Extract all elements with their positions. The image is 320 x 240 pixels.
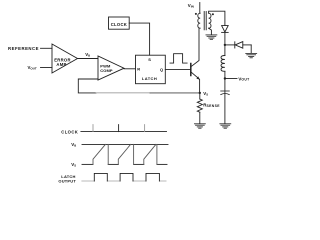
transformer core	[203, 12, 205, 30]
ground under C1	[220, 124, 231, 128]
transistor Q1 emitter with arrow	[191, 72, 200, 93]
svg-text:VIN: VIN	[188, 3, 195, 8]
ground under secondary	[206, 35, 217, 39]
svg-text:Va: Va	[85, 52, 90, 57]
node diode junction dot	[224, 44, 226, 46]
ground at D2	[246, 53, 257, 57]
op-amp ERROR AMP	[52, 44, 78, 73]
wire junction to diode D2	[225, 44, 235, 46]
svg-text:REFERENCE: REFERENCE	[8, 46, 39, 51]
wire vout input	[41, 67, 53, 69]
waveform Va level line	[82, 143, 168, 145]
wire PWM comp output to latch R	[124, 68, 136, 70]
wire reference input	[41, 47, 53, 49]
svg-text:RSENSE: RSENSE	[203, 102, 220, 107]
wire secondary bottom to ground	[209, 28, 212, 34]
clock spike 2	[118, 125, 120, 132]
resistor RSENSE	[199, 93, 201, 99]
svg-text:Q: Q	[160, 67, 163, 72]
latch U1 box	[136, 55, 166, 83]
wire secondary top to diode D1	[209, 11, 225, 25]
inductor L1	[224, 45, 226, 56]
waveform Vs ramp 2	[118, 144, 130, 164]
svg-text:OUTPUT: OUTPUT	[58, 179, 76, 184]
capacitor C1	[224, 79, 226, 124]
svg-text:CLOCK: CLOCK	[61, 129, 78, 134]
transistor Q1 collector	[191, 28, 199, 67]
diode D2 catch	[234, 42, 236, 48]
waveform Vs ramp 3	[144, 144, 156, 164]
svg-text:VOUT: VOUT	[238, 76, 250, 81]
node VOUT junction dot	[224, 77, 226, 79]
waveform clock baseline	[81, 131, 167, 133]
waveform Vs baseline segments	[82, 163, 93, 165]
pulse waveform glyph above Q wire	[170, 54, 187, 63]
wire error amp output to PWM comp	[78, 58, 99, 60]
clock spike 1	[92, 125, 94, 132]
svg-text:AMP: AMP	[56, 62, 66, 67]
clock spike 3	[144, 125, 146, 132]
wire clock to latch S input	[129, 23, 149, 55]
svg-text:Vs: Vs	[71, 162, 76, 167]
polarity dot primary	[195, 13, 197, 15]
wire to VOUT label	[225, 78, 237, 80]
wire feedback from Vs node to PWM inverting input	[78, 79, 98, 93]
wire latch Q output to transistor base	[165, 68, 191, 70]
wire VIN to primary	[199, 3, 201, 14]
svg-text:CLOCK: CLOCK	[111, 22, 127, 27]
transformer T1 primary winding	[198, 13, 200, 28]
waveform Vs ramp 1	[93, 144, 105, 164]
polarity dot secondary	[212, 13, 214, 15]
wire D2 anode to ground	[250, 45, 252, 53]
svg-text:S: S	[148, 57, 151, 62]
svg-text:LATCH: LATCH	[142, 76, 157, 81]
diode D1 rectifier	[222, 26, 229, 32]
svg-text:VOUT: VOUT	[28, 65, 37, 70]
comparator PWM COMP	[98, 56, 124, 80]
ground under RSENSE	[194, 124, 205, 128]
clock box	[109, 17, 130, 29]
transformer T1 secondary winding	[209, 13, 211, 28]
waveform latch output	[82, 180, 166, 182]
svg-text:R: R	[137, 67, 140, 72]
transistor Q1 base bar	[190, 64, 192, 76]
svg-text:Va: Va	[71, 142, 76, 147]
svg-text:Vs: Vs	[203, 91, 208, 96]
svg-text:COMP: COMP	[100, 68, 113, 73]
node Vs junction dot	[199, 92, 201, 94]
